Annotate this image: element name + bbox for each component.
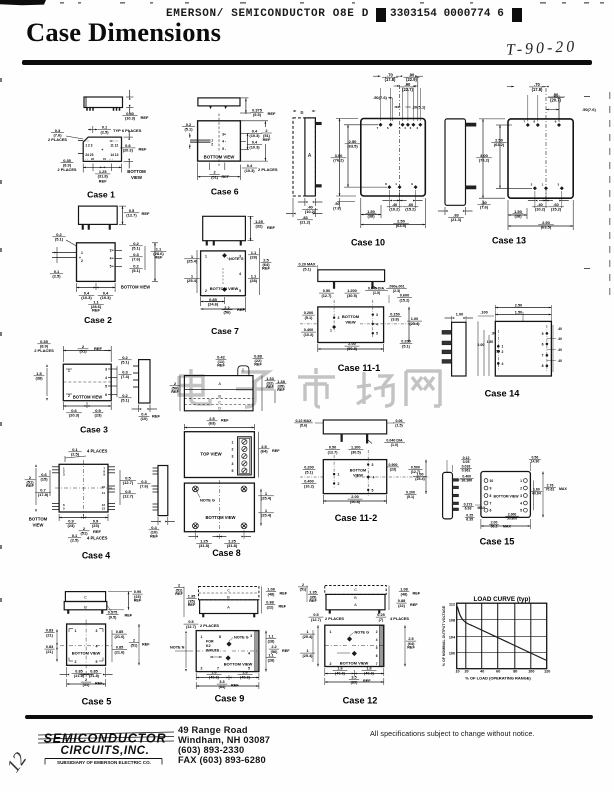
- svg-text:(21.6): (21.6): [115, 650, 126, 654]
- svg-text:(2.3): (2.3): [393, 289, 401, 293]
- svg-text:(5.1): (5.1): [121, 398, 130, 403]
- svg-text:4: 4: [232, 462, 234, 466]
- svg-text:(10): (10): [140, 416, 148, 421]
- svg-text:7: 7: [376, 662, 378, 666]
- svg-text:(51): (51): [211, 174, 219, 179]
- svg-text:0.50: 0.50: [323, 289, 330, 293]
- svg-text:(30.5): (30.5): [347, 294, 358, 298]
- svg-text:↓↓: ↓↓: [85, 158, 88, 161]
- svg-text:(28): (28): [250, 255, 258, 260]
- svg-text:2: 2: [178, 584, 180, 588]
- svg-text:B: B: [300, 110, 303, 116]
- svg-text:(20.3): (20.3): [69, 413, 80, 418]
- svg-text:.20(5.1): .20(5.1): [412, 105, 426, 110]
- svg-text:2: 2: [502, 350, 504, 354]
- svg-text:0.88: 0.88: [266, 601, 273, 605]
- svg-text:B: B: [354, 596, 357, 600]
- svg-text:7: 7: [377, 126, 379, 130]
- svg-text:(10.3): (10.3): [81, 295, 92, 300]
- svg-text:Case 4: Case 4: [82, 551, 110, 561]
- svg-text:REF: REF: [272, 449, 280, 453]
- svg-text:1: 1: [330, 329, 332, 333]
- svg-text:9: 9: [490, 486, 492, 490]
- svg-text:(7.6): (7.6): [480, 205, 489, 210]
- svg-text:(76.2): (76.2): [479, 158, 490, 163]
- svg-text:5: 5: [248, 667, 250, 671]
- svg-text:REF: REF: [142, 211, 151, 216]
- svg-text:B: B: [227, 595, 230, 599]
- svg-text:.40: .40: [558, 327, 563, 331]
- svg-text:REF: REF: [222, 174, 230, 179]
- svg-text:1.6: 1.6: [211, 671, 216, 675]
- svg-text:(51): (51): [300, 587, 307, 591]
- svg-text:2: 2: [232, 448, 234, 452]
- svg-text:2: 2: [201, 667, 203, 671]
- svg-text:(25.4): (25.4): [187, 259, 198, 264]
- svg-text:3: 3: [410, 126, 412, 130]
- svg-text:9: 9: [555, 120, 557, 124]
- svg-text:(56): (56): [223, 310, 231, 315]
- svg-text:(76.2): (76.2): [333, 158, 344, 163]
- svg-text:0.85: 0.85: [116, 646, 123, 650]
- svg-text:(12.7): (12.7): [126, 213, 137, 218]
- svg-text:8: 8: [219, 635, 221, 639]
- svg-text:(2.5): (2.5): [70, 538, 79, 543]
- svg-text:(20.7): (20.7): [550, 97, 561, 102]
- svg-text:FOR: FOR: [206, 640, 214, 644]
- svg-text:3: 3: [557, 183, 559, 187]
- svg-text:C: C: [218, 400, 221, 404]
- svg-text:(23): (23): [92, 523, 100, 528]
- svg-text:0.200: 0.200: [401, 340, 411, 344]
- svg-text:+: +: [79, 256, 81, 260]
- svg-text:REF: REF: [221, 419, 229, 423]
- svg-text:(21): (21): [46, 650, 53, 654]
- svg-text:(84): (84): [219, 685, 226, 689]
- svg-text:REF: REF: [142, 643, 150, 647]
- svg-text:(10.2): (10.2): [304, 333, 315, 337]
- svg-text:2: 2: [416, 126, 418, 130]
- svg-text:REF: REF: [267, 225, 276, 230]
- svg-text:0.83: 0.83: [46, 629, 53, 633]
- svg-text:5: 5: [520, 509, 522, 513]
- svg-text:A: A: [354, 602, 357, 607]
- svg-text:11 12: 11 12: [110, 143, 118, 147]
- svg-text:1.200: 1.200: [347, 289, 357, 293]
- svg-text:BOTTOM: BOTTOM: [29, 517, 48, 522]
- svg-text:8: 8: [385, 182, 387, 186]
- svg-text:4: 4: [96, 644, 98, 648]
- svg-text:1.08: 1.08: [267, 588, 274, 592]
- svg-text:(40.6): (40.6): [335, 671, 346, 675]
- svg-text:B: B: [84, 604, 87, 609]
- svg-text:0.961: 0.961: [462, 469, 471, 473]
- svg-text:(28): (28): [268, 639, 275, 643]
- svg-text:80: 80: [513, 670, 517, 674]
- svg-text:60: 60: [496, 670, 500, 674]
- svg-text:BOTTOM: BOTTOM: [342, 314, 360, 319]
- svg-text:(30.5): (30.5): [351, 450, 362, 454]
- svg-text:14 13: 14 13: [110, 153, 118, 157]
- svg-text:0.20 MAX: 0.20 MAX: [299, 263, 316, 267]
- svg-text:NOTE G: NOTE G: [200, 498, 215, 503]
- svg-text:(7.4): (7.4): [121, 374, 130, 379]
- svg-text:(38): (38): [367, 214, 375, 219]
- svg-text:8: 8: [533, 120, 535, 124]
- svg-text:(5.1): (5.1): [55, 237, 64, 242]
- svg-text:2 PLACES: 2 PLACES: [325, 616, 344, 621]
- svg-text:5: 5: [232, 469, 234, 473]
- svg-text:VIEW: VIEW: [131, 175, 143, 180]
- svg-text:5: 5: [96, 660, 98, 664]
- svg-text:REF: REF: [237, 307, 246, 312]
- svg-text:7: 7: [490, 501, 492, 505]
- svg-text:BOTTOM VIEW: BOTTOM VIEW: [210, 286, 239, 291]
- svg-text:REF: REF: [263, 137, 271, 142]
- svg-text:(15): (15): [40, 477, 48, 482]
- svg-text:(12.7): (12.7): [311, 618, 322, 622]
- svg-text:(48): (48): [401, 592, 408, 596]
- svg-text:BOTTOM VIEW: BOTTOM VIEW: [493, 495, 519, 499]
- svg-text:Case 3: Case 3: [80, 425, 108, 435]
- svg-text:7: 7: [523, 120, 525, 124]
- svg-text:2: 2: [531, 183, 533, 187]
- svg-text:Case 14: Case 14: [485, 389, 521, 399]
- svg-text:D: D: [218, 406, 221, 410]
- svg-text:MAX: MAX: [478, 506, 486, 510]
- svg-text:100: 100: [528, 670, 534, 674]
- svg-text:NOTE N: NOTE N: [170, 646, 185, 650]
- svg-text:C: C: [354, 588, 357, 592]
- svg-text:(1.5): (1.5): [395, 423, 403, 427]
- svg-text:Case 5: Case 5: [82, 697, 112, 707]
- svg-text:TOP VIEW: TOP VIEW: [200, 452, 222, 457]
- svg-text:REF: REF: [268, 111, 277, 116]
- svg-text:6: 6: [376, 654, 378, 658]
- svg-text:6: 6: [105, 393, 107, 397]
- svg-text:(9.5): (9.5): [109, 615, 118, 619]
- svg-text:(40.6): (40.6): [240, 675, 251, 679]
- svg-text:0.90: 0.90: [134, 590, 141, 594]
- svg-text:REF: REF: [125, 614, 133, 618]
- svg-text:B: B: [218, 393, 221, 398]
- svg-text:(64): (64): [260, 449, 268, 454]
- svg-text:112: 112: [449, 603, 455, 607]
- svg-text:(63.5): (63.5): [541, 225, 552, 230]
- svg-text:MAX: MAX: [503, 525, 511, 529]
- svg-text:1: 1: [306, 649, 308, 653]
- svg-text:1.200: 1.200: [351, 446, 361, 450]
- svg-text:(25.4): (25.4): [261, 496, 272, 501]
- svg-text:0.600: 0.600: [400, 294, 410, 298]
- svg-text:2: 2: [133, 639, 135, 643]
- svg-text:(5.1): (5.1): [407, 495, 415, 499]
- svg-text:(50.8): (50.8): [347, 347, 358, 351]
- svg-text:(25.4): (25.4): [303, 635, 314, 639]
- svg-text:(23): (23): [390, 467, 397, 471]
- svg-text:4: 4: [373, 475, 375, 479]
- svg-text:8: 8: [490, 494, 492, 498]
- svg-text:REF: REF: [280, 592, 288, 596]
- svg-text:REF: REF: [277, 388, 285, 392]
- svg-text:3: 3: [520, 494, 522, 498]
- svg-text:1.6: 1.6: [366, 667, 371, 671]
- svg-text:INPUTS: INPUTS: [206, 649, 220, 653]
- svg-text:0.200: 0.200: [304, 311, 314, 315]
- svg-text:5: 5: [376, 332, 378, 336]
- svg-text:3: 3: [96, 629, 98, 633]
- svg-text:BOTTOM VIEW: BOTTOM VIEW: [340, 660, 369, 665]
- svg-text:2: 2: [338, 316, 340, 320]
- svg-text:REF: REF: [171, 390, 179, 394]
- svg-text:6.35: 6.35: [466, 518, 473, 522]
- svg-text:4 PLACES: 4 PLACES: [390, 616, 409, 621]
- svg-text:Case 9: Case 9: [215, 694, 245, 704]
- svg-text:9: 9: [103, 473, 105, 477]
- svg-text:5: 5: [399, 126, 401, 130]
- svg-text:4 -: 4 -: [222, 140, 226, 144]
- svg-text:REF: REF: [410, 603, 418, 607]
- svg-text:(7.6): (7.6): [140, 484, 149, 489]
- svg-text:REF: REF: [282, 649, 290, 653]
- svg-text:4: 4: [520, 501, 522, 505]
- svg-text:(51): (51): [131, 643, 138, 647]
- svg-text:(5.1): (5.1): [402, 344, 411, 348]
- svg-text:1: 1: [502, 345, 504, 349]
- svg-text:2 PLACES: 2 PLACES: [57, 167, 76, 172]
- svg-text:0.88: 0.88: [398, 599, 405, 603]
- svg-text:4: 4: [376, 322, 378, 326]
- svg-text:.100: .100: [480, 311, 487, 315]
- svg-text:(10.3): (10.3): [125, 116, 136, 121]
- svg-text:REF: REF: [155, 255, 164, 260]
- svg-text:REF: REF: [92, 308, 101, 313]
- svg-text:(51): (51): [79, 349, 87, 354]
- svg-text:(2.5): (2.5): [101, 129, 110, 134]
- svg-text:8: 8: [542, 364, 544, 368]
- svg-text:(10.2): (10.2): [389, 207, 400, 212]
- svg-text:REF: REF: [254, 363, 262, 367]
- svg-text:0.85: 0.85: [75, 670, 82, 674]
- svg-text:5: 5: [372, 488, 374, 492]
- svg-text:(25.4): (25.4): [187, 278, 198, 283]
- svg-text:(50.8): (50.8): [350, 500, 361, 504]
- svg-text:(12.7): (12.7): [123, 480, 134, 485]
- svg-text:(10.2): (10.2): [535, 207, 546, 212]
- svg-text:3+: 3+: [222, 132, 226, 136]
- svg-text:1.1: 1.1: [268, 654, 273, 658]
- svg-text:(10.3): (10.3): [249, 133, 260, 138]
- svg-text:REF: REF: [309, 599, 317, 603]
- svg-text:(10.3): (10.3): [100, 295, 111, 300]
- svg-text:REF: REF: [99, 178, 107, 183]
- svg-text:11: 11: [102, 491, 106, 495]
- svg-text:Case 8: Case 8: [212, 548, 240, 558]
- svg-text:1: 1: [395, 182, 397, 186]
- svg-text:.50: .50: [334, 202, 339, 206]
- svg-text:9: 9: [411, 182, 413, 186]
- svg-text:(24.6): (24.6): [208, 302, 219, 307]
- svg-text:1.35: 1.35: [309, 591, 316, 595]
- svg-text:(63.5): (63.5): [396, 223, 407, 228]
- svg-text:2: 2: [520, 486, 522, 490]
- svg-text:2.00: 2.00: [351, 495, 358, 499]
- svg-text:(22): (22): [267, 605, 274, 609]
- svg-text:(12.7): (12.7): [186, 625, 197, 629]
- svg-text:VIEW: VIEW: [345, 320, 355, 325]
- svg-text:108: 108: [449, 619, 455, 623]
- svg-text:2 PLACES: 2 PLACES: [48, 137, 67, 142]
- svg-text:1.08: 1.08: [400, 588, 407, 592]
- svg-text:CIRCUITS,INC.: CIRCUITS,INC.: [61, 744, 150, 757]
- svg-text:VIEW: VIEW: [353, 474, 363, 478]
- svg-text:BOTTOM VIEW: BOTTOM VIEW: [121, 285, 150, 290]
- svg-text:0.400: 0.400: [304, 480, 314, 484]
- svg-text:K2: K2: [206, 644, 211, 648]
- svg-text:1: 1: [201, 635, 203, 639]
- svg-text:(40.6): (40.6): [364, 671, 375, 675]
- svg-text:(12.7): (12.7): [328, 450, 339, 454]
- svg-text:(17.8): (17.8): [38, 492, 49, 497]
- svg-text:3: 3: [232, 455, 234, 459]
- svg-text:MAX: MAX: [559, 487, 567, 491]
- svg-text:6.93: 6.93: [465, 507, 472, 511]
- svg-text:(5.1): (5.1): [132, 246, 141, 251]
- svg-text:(89): (89): [351, 680, 358, 684]
- svg-text:1 2 3: 1 2 3: [85, 143, 92, 147]
- svg-text:1.1: 1.1: [268, 635, 273, 639]
- svg-text:REF: REF: [152, 414, 161, 419]
- svg-text:(3.8): (3.8): [391, 317, 400, 321]
- svg-text:5: 5: [105, 384, 107, 388]
- svg-text:(40.6): (40.6): [209, 675, 220, 679]
- svg-text:120: 120: [544, 670, 550, 674]
- svg-text:% OF NOMINAL OUTPUT VOLTAGE: % OF NOMINAL OUTPUT VOLTAGE: [442, 605, 446, 666]
- svg-text:(28): (28): [268, 658, 275, 662]
- svg-text:Case 11-1: Case 11-1: [338, 363, 380, 373]
- svg-text:REF: REF: [94, 346, 103, 351]
- svg-text:(23): (23): [94, 413, 102, 418]
- svg-text:.40: .40: [558, 348, 563, 352]
- svg-text:0.375: 0.375: [108, 611, 118, 615]
- svg-text:(5.1): (5.1): [305, 316, 314, 320]
- svg-text:2.2: 2.2: [271, 645, 276, 649]
- svg-text:(17.8): (17.8): [385, 77, 396, 82]
- svg-text:4: 4: [404, 126, 406, 130]
- svg-text:1.6: 1.6: [337, 667, 342, 671]
- svg-text:3: 3: [63, 473, 65, 477]
- svg-text:Case 6: Case 6: [211, 187, 239, 197]
- svg-text:REF: REF: [266, 385, 274, 389]
- svg-text:14.30: 14.30: [531, 460, 540, 464]
- svg-text:↓↓↓: ↓↓↓: [109, 158, 113, 161]
- svg-text:1: 1: [330, 630, 332, 634]
- svg-text:REF: REF: [150, 534, 159, 539]
- svg-text:Case 2: Case 2: [84, 315, 112, 325]
- svg-text:Case 1: Case 1: [87, 190, 115, 200]
- svg-text:(1.0): (1.0): [373, 291, 381, 295]
- svg-text:15: 15: [103, 157, 107, 161]
- svg-text:(21.6): (21.6): [115, 635, 126, 639]
- svg-text:TYP 6 PLACES: TYP 6 PLACES: [113, 128, 142, 133]
- svg-text:.50(7.6): .50(7.6): [373, 95, 387, 100]
- svg-text:3.5: 3.5: [351, 676, 356, 680]
- svg-text:REF: REF: [217, 364, 225, 368]
- svg-text:2: 2: [211, 143, 213, 147]
- svg-text:2.50: 2.50: [515, 304, 522, 308]
- svg-text:% OF LOAD (OPERATING RANGE): % OF LOAD (OPERATING RANGE): [465, 676, 531, 681]
- svg-text:1.00: 1.00: [411, 317, 418, 321]
- svg-text:3: 3: [376, 313, 378, 317]
- svg-text:BOTTOM VIEW: BOTTOM VIEW: [73, 395, 102, 400]
- svg-text:(23): (23): [67, 523, 75, 528]
- svg-text:(25.4): (25.4): [415, 477, 425, 481]
- svg-text:REF: REF: [279, 605, 287, 609]
- svg-text:4: 4: [502, 362, 504, 366]
- svg-text:20: 20: [464, 670, 468, 674]
- svg-text:VIEW: VIEW: [33, 523, 45, 528]
- svg-text:4 PLACES: 4 PLACES: [87, 536, 108, 541]
- svg-text:2: 2: [205, 289, 207, 293]
- svg-text:(21.8): (21.8): [89, 674, 100, 678]
- svg-text:(28): (28): [250, 278, 258, 283]
- svg-text:70.61: 70.61: [546, 488, 555, 492]
- svg-text:3: 3: [372, 463, 374, 467]
- svg-text:2: 2: [85, 678, 87, 682]
- svg-text:Case 13: Case 13: [492, 236, 526, 246]
- svg-text:(2.5): (2.5): [71, 452, 80, 457]
- svg-text:(22): (22): [398, 604, 405, 608]
- svg-text:(31.8): (31.8): [199, 543, 210, 548]
- svg-text:13: 13: [102, 507, 106, 511]
- svg-text:(7): (7): [379, 618, 384, 622]
- svg-text:2: 2: [330, 662, 332, 666]
- svg-text:(10.3): (10.3): [244, 168, 255, 173]
- svg-text:1.00: 1.00: [456, 313, 463, 317]
- svg-text:REF: REF: [231, 684, 239, 688]
- svg-text:104: 104: [449, 636, 456, 640]
- svg-text:50.800: 50.800: [507, 517, 517, 521]
- svg-text:.90: .90: [491, 332, 496, 336]
- svg-text:5: 5: [542, 332, 544, 336]
- svg-text:(25.4): (25.4): [303, 654, 314, 658]
- svg-text:3.3: 3.3: [219, 680, 224, 684]
- svg-text:22: 22: [91, 157, 95, 161]
- svg-text:1: 1: [75, 629, 77, 633]
- svg-text:LOAD CURVE (typ): LOAD CURVE (typ): [474, 596, 531, 603]
- svg-text:REF: REF: [413, 592, 421, 596]
- svg-text:(5.1): (5.1): [121, 360, 130, 365]
- svg-text:REF: REF: [175, 592, 183, 596]
- svg-text:REF: REF: [139, 146, 148, 151]
- svg-text:(10.3): (10.3): [249, 144, 260, 149]
- svg-text:10: 10: [455, 670, 459, 674]
- svg-text:+: +: [112, 265, 114, 269]
- svg-text:(12.7): (12.7): [123, 494, 134, 499]
- svg-text:(15.2): (15.2): [405, 207, 416, 212]
- svg-text:(1.0): (1.0): [391, 443, 399, 447]
- svg-text:(7.6): (7.6): [333, 207, 342, 211]
- svg-text:(25.4): (25.4): [261, 513, 272, 518]
- svg-text:2: 2: [75, 660, 77, 664]
- svg-text:NOTE G: NOTE G: [355, 631, 370, 635]
- svg-text:4: 4: [105, 376, 107, 380]
- svg-text:2: 2: [376, 630, 378, 634]
- svg-text:(63): (63): [208, 421, 216, 426]
- svg-text:(21): (21): [46, 633, 53, 637]
- svg-text:2: 2: [81, 259, 83, 263]
- svg-text:1.35: 1.35: [188, 595, 195, 599]
